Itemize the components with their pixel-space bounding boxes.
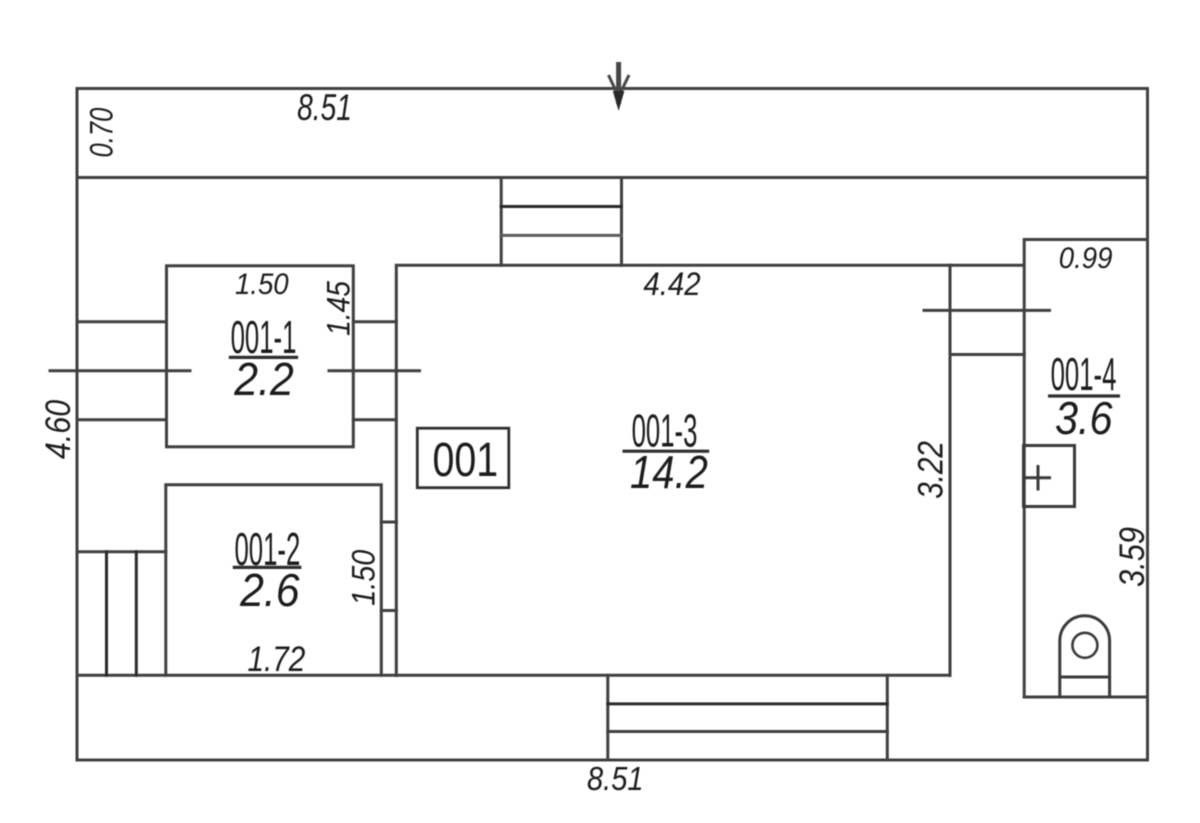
wall corridor xyxy=(77,176,1148,179)
svg-text:14.2: 14.2 xyxy=(630,447,708,498)
svg-text:1.45: 1.45 xyxy=(322,281,357,336)
svg-text:4.42: 4.42 xyxy=(643,266,700,302)
wall outer bottom xyxy=(77,759,1148,762)
underline 001-3 xyxy=(623,450,710,453)
svg-text:001: 001 xyxy=(432,433,498,487)
window left: sill top xyxy=(77,550,166,553)
window bottom: left jamb xyxy=(606,675,609,760)
underline 001-1 xyxy=(229,356,298,359)
wall segment between 001-3 and 001-4 xyxy=(950,353,1024,356)
svg-text:3.6: 3.6 xyxy=(1055,393,1113,445)
window bottom: right jamb xyxy=(886,675,889,760)
opening between 001-2 and 001-3: bottom connector xyxy=(381,609,396,612)
svg-text:8.51: 8.51 xyxy=(297,86,352,128)
opening left of 001-1: line 2 xyxy=(77,418,167,421)
room 001-2 walls xyxy=(166,485,381,676)
window bottom: pane line 1 xyxy=(608,702,888,705)
room 001-3 walls xyxy=(396,265,1023,675)
wall outer right xyxy=(1146,89,1149,761)
room 001-4 walls xyxy=(1024,240,1147,698)
room 001-1 walls xyxy=(167,266,354,447)
underline 001-2 xyxy=(233,566,302,569)
opening between 001-2 and 001-3: top connector xyxy=(381,521,396,524)
dimension tick left xyxy=(50,369,190,372)
entrance arrow xyxy=(609,62,630,111)
label box 001 xyxy=(417,428,509,488)
svg-text:3.22: 3.22 xyxy=(911,441,950,499)
wall outer top xyxy=(77,87,1148,90)
window bottom: pane line 2 xyxy=(608,730,888,733)
svg-text:2.6: 2.6 xyxy=(239,566,300,617)
opening right of 001-1: line 1 xyxy=(353,320,396,323)
sink with plus xyxy=(1024,446,1075,507)
svg-text:4.60: 4.60 xyxy=(38,400,77,459)
opening right of 001-1: line 2 xyxy=(353,418,396,421)
svg-text:1.50: 1.50 xyxy=(346,550,382,606)
window left: mullion 2 xyxy=(135,552,138,676)
svg-text:0.70: 0.70 xyxy=(85,108,120,158)
toilet xyxy=(1060,616,1110,697)
window top: pane line 1 xyxy=(501,205,621,208)
window top: right jamb xyxy=(620,178,623,266)
window left: mullion 1 xyxy=(105,552,108,676)
svg-text:2.2: 2.2 xyxy=(233,355,294,406)
underline 001-4 xyxy=(1048,394,1120,397)
svg-text:0.99: 0.99 xyxy=(1059,242,1113,275)
room 001-3 right wall xyxy=(949,265,952,675)
svg-text:1.50: 1.50 xyxy=(235,268,289,301)
svg-text:1.72: 1.72 xyxy=(247,640,305,679)
window top: pane line 2 xyxy=(501,234,621,237)
dimension tick right xyxy=(924,309,1050,312)
svg-text:3.59: 3.59 xyxy=(1112,527,1151,587)
opening left of 001-1: line 1 xyxy=(77,320,167,323)
window top: left jamb xyxy=(500,178,503,266)
rooms bottom wall xyxy=(77,674,950,677)
wall outer left xyxy=(76,89,79,761)
room 001-4 bottom wall xyxy=(1024,696,1147,699)
dimension tick middle xyxy=(329,369,420,372)
svg-text:8.51: 8.51 xyxy=(587,760,644,797)
